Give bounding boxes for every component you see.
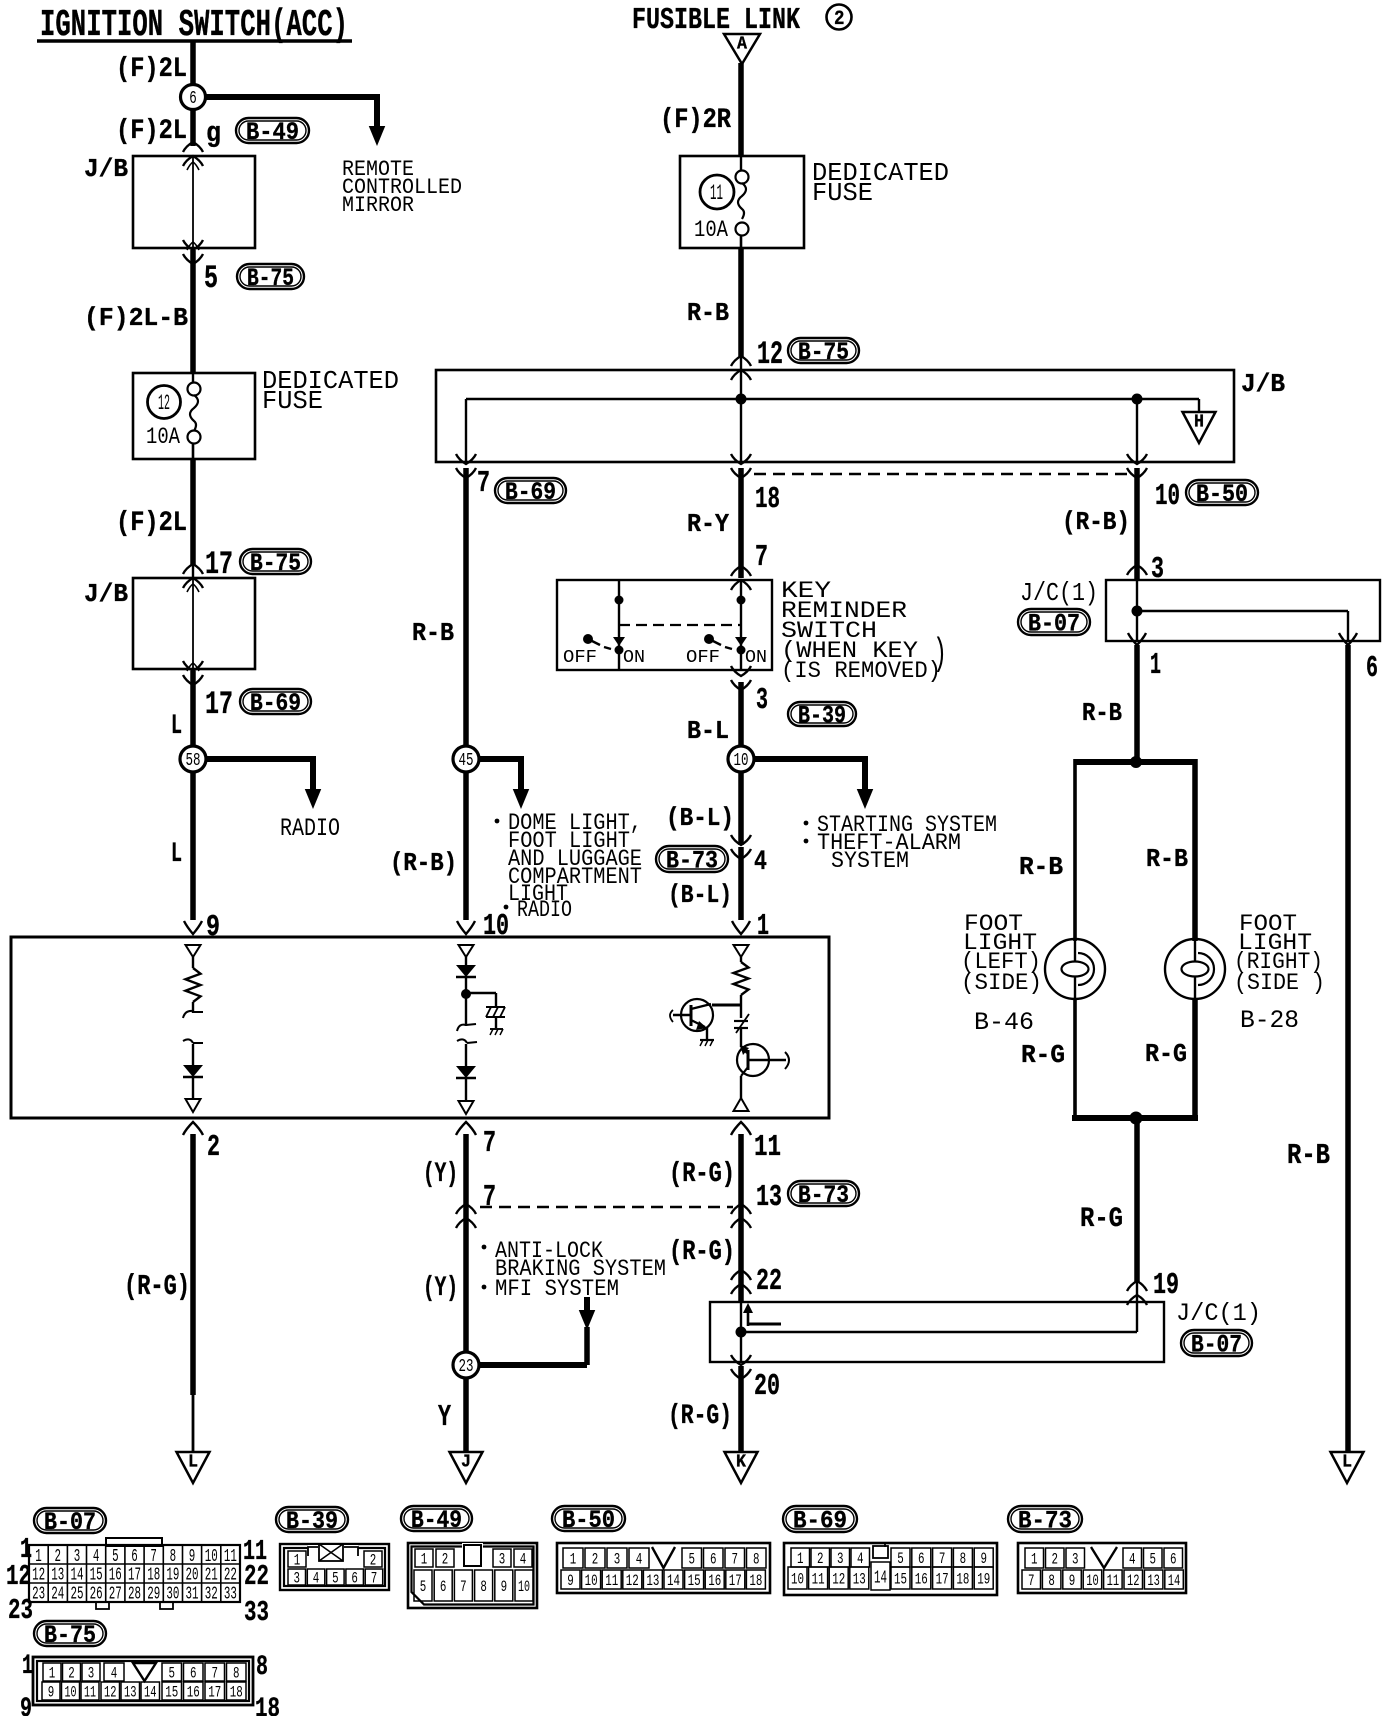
svg-text:11: 11 [605,1572,618,1590]
svg-text:(F)2R: (F)2R [660,105,731,136]
svg-text:B-75: B-75 [247,265,294,293]
svg-text:5: 5 [169,1665,176,1683]
svg-text:19: 19 [977,1571,990,1589]
svg-text:7: 7 [212,1665,219,1683]
svg-text:13: 13 [124,1684,137,1702]
svg-text:5: 5 [689,1551,696,1569]
svg-text:B-75: B-75 [250,550,301,578]
svg-text:10: 10 [518,1578,530,1596]
svg-text:1: 1 [570,1551,577,1569]
svg-text:9: 9 [501,1578,508,1596]
svg-text:OFF: OFF [686,646,720,668]
svg-text:R-B: R-B [687,298,729,328]
svg-text:8: 8 [256,1652,268,1683]
svg-text:9: 9 [1069,1572,1076,1590]
svg-text:45: 45 [459,749,474,771]
svg-text:B-49: B-49 [246,119,299,147]
svg-text:9: 9 [981,1550,988,1568]
svg-text:20: 20 [754,1370,780,1404]
svg-text:31: 31 [186,1585,199,1605]
svg-text:(F)2L: (F)2L [116,508,187,539]
svg-text:9: 9 [189,1547,196,1567]
svg-text:1: 1 [757,910,769,944]
svg-text:9: 9 [48,1684,55,1702]
svg-text:B-73: B-73 [798,1182,849,1210]
svg-text:3: 3 [1151,553,1164,587]
svg-text:6: 6 [189,87,197,109]
svg-text:FUSE: FUSE [262,386,323,416]
svg-text:23: 23 [8,1594,33,1627]
svg-text:18: 18 [749,1572,762,1590]
svg-text:13: 13 [646,1572,659,1590]
svg-text:23: 23 [459,1355,474,1377]
svg-text:1: 1 [1150,649,1161,683]
svg-text:(B-L): (B-L) [666,803,734,833]
svg-text:14: 14 [1168,1572,1181,1590]
svg-text:10A: 10A [694,217,728,243]
svg-text:R-G: R-G [1080,1204,1123,1235]
svg-text:9: 9 [567,1572,574,1590]
svg-text:(R-G): (R-G) [669,1159,735,1190]
svg-text:1: 1 [1031,1551,1038,1569]
svg-text:4: 4 [111,1665,118,1683]
svg-text:8: 8 [753,1551,760,1569]
svg-text:17: 17 [936,1571,949,1589]
svg-text:20: 20 [186,1566,199,1586]
svg-text:10A: 10A [146,424,180,450]
svg-text:17: 17 [205,686,233,723]
svg-text:32: 32 [205,1585,218,1605]
svg-text:K: K [736,1453,746,1473]
svg-text:12: 12 [626,1572,639,1590]
svg-text:10: 10 [1155,480,1180,514]
svg-text:29: 29 [147,1585,160,1605]
svg-text:7: 7 [477,467,490,501]
svg-text:12: 12 [6,1560,31,1593]
svg-text:4: 4 [313,1570,320,1588]
svg-text:ON: ON [623,646,645,668]
svg-text:2: 2 [207,1131,220,1165]
svg-text:19: 19 [166,1566,179,1586]
svg-text:4: 4 [754,847,767,878]
svg-text:8: 8 [170,1547,177,1567]
svg-text:B-50: B-50 [562,1507,615,1535]
svg-text:4: 4 [93,1547,100,1567]
svg-text:4: 4 [636,1551,643,1569]
svg-text:(SIDE): (SIDE) [961,970,1042,996]
svg-text:3: 3 [74,1547,81,1567]
svg-text:(Y): (Y) [423,1159,458,1190]
svg-text:13: 13 [853,1571,866,1589]
svg-text:5: 5 [1150,1551,1157,1569]
svg-text:17: 17 [208,1684,221,1702]
svg-text:B-75: B-75 [798,339,849,367]
svg-text:L: L [171,711,182,742]
svg-text:B-46: B-46 [974,1009,1034,1037]
svg-text:1: 1 [22,1651,33,1682]
svg-text:FUSIBLE LINK: FUSIBLE LINK [632,4,801,38]
svg-text:15: 15 [90,1566,103,1586]
svg-text:B-07: B-07 [1028,611,1080,639]
svg-text:J: J [461,1453,471,1473]
svg-text:5: 5 [332,1570,339,1588]
svg-text:B-07: B-07 [1191,1332,1242,1360]
svg-text:(B-L): (B-L) [668,880,732,910]
svg-text:18: 18 [147,1566,160,1586]
svg-text:4: 4 [1129,1551,1136,1569]
svg-text:J/B: J/B [84,579,128,609]
svg-text:B-28: B-28 [1240,1007,1299,1035]
svg-text:R-B: R-B [1146,844,1188,874]
svg-text:4: 4 [857,1550,864,1568]
svg-text:2: 2 [68,1665,75,1683]
svg-text:OFF: OFF [563,646,597,668]
svg-text:(R-G): (R-G) [124,1270,190,1303]
svg-text:FUSE: FUSE [812,178,873,208]
svg-text:7: 7 [150,1547,157,1567]
svg-text:1: 1 [421,1551,428,1569]
svg-text:2: 2 [1052,1551,1059,1569]
svg-text:12: 12 [158,391,170,416]
svg-text:5: 5 [420,1578,427,1596]
svg-text:6: 6 [351,1570,358,1588]
svg-text:1: 1 [49,1665,56,1683]
svg-text:3: 3 [88,1665,95,1683]
svg-text:2: 2 [592,1551,599,1569]
svg-text:10: 10 [791,1571,804,1589]
svg-text:5: 5 [204,260,218,297]
svg-text:7: 7 [371,1570,378,1588]
svg-text:RADIO: RADIO [517,897,572,923]
svg-text:5: 5 [897,1550,904,1568]
svg-text:R-B: R-B [1287,1139,1330,1172]
svg-text:16: 16 [109,1566,122,1586]
svg-text:L: L [188,1453,198,1473]
svg-text:16: 16 [915,1571,928,1589]
svg-text:17: 17 [128,1566,141,1586]
svg-text:22: 22 [756,1265,782,1299]
svg-text:12: 12 [757,336,783,373]
svg-text:MIRROR: MIRROR [342,193,414,218]
svg-text:11: 11 [812,1571,825,1589]
svg-text:RADIO: RADIO [280,815,340,843]
svg-text:R-B: R-B [1019,852,1063,882]
svg-text:B-69: B-69 [250,690,301,718]
svg-text:33: 33 [244,1596,269,1629]
svg-text:17: 17 [729,1572,742,1590]
svg-text:2: 2 [442,1551,449,1569]
svg-text:R-Y: R-Y [687,509,729,539]
svg-text:5: 5 [112,1547,119,1567]
svg-text:22: 22 [244,1560,269,1593]
svg-text:21: 21 [205,1566,218,1586]
svg-text:R-B: R-B [412,618,454,648]
svg-text:8: 8 [1048,1572,1055,1590]
svg-text:ON: ON [745,646,767,668]
svg-text:11: 11 [224,1547,237,1567]
svg-text:B-50: B-50 [1196,481,1248,509]
svg-text:24: 24 [51,1585,64,1605]
svg-text:7: 7 [460,1578,467,1596]
svg-text:10: 10 [585,1572,598,1590]
svg-text:MFI SYSTEM: MFI SYSTEM [495,1276,619,1302]
svg-text:B-75: B-75 [44,1622,96,1650]
svg-text:J/C(1): J/C(1) [1020,578,1098,608]
svg-text:12: 12 [832,1571,845,1589]
svg-text:7: 7 [1028,1572,1035,1590]
svg-text:14: 14 [144,1684,157,1702]
svg-text:A: A [737,35,747,55]
svg-text:7: 7 [732,1551,739,1569]
svg-text:15: 15 [165,1684,178,1702]
svg-text:SYSTEM: SYSTEM [831,848,909,874]
svg-text:B-49: B-49 [411,1507,462,1535]
svg-text:8: 8 [233,1665,240,1683]
svg-text:B-39: B-39 [286,1508,338,1536]
svg-text:R-G: R-G [1145,1039,1187,1069]
svg-text:(F)2L-B: (F)2L-B [84,303,188,333]
svg-text:6: 6 [918,1550,925,1568]
svg-text:J/B: J/B [1241,369,1285,399]
svg-text:25: 25 [71,1585,84,1605]
svg-text:B-73: B-73 [1018,1508,1072,1536]
svg-text:9: 9 [206,911,220,945]
svg-text:L: L [171,839,182,870]
svg-text:14: 14 [667,1572,680,1590]
svg-text:28: 28 [128,1585,141,1605]
svg-text:6: 6 [131,1547,138,1567]
svg-text:3: 3 [294,1570,301,1588]
svg-text:4: 4 [520,1551,527,1569]
svg-text:2: 2 [817,1550,824,1568]
svg-text:7: 7 [483,1127,496,1161]
svg-text:10: 10 [483,910,509,944]
svg-text:Y: Y [438,1401,451,1435]
svg-text:15: 15 [688,1572,701,1590]
svg-text:R-B: R-B [1082,698,1122,728]
svg-text:2: 2 [370,1552,377,1570]
svg-text:J/C(1): J/C(1) [1176,1300,1261,1328]
svg-text:10: 10 [734,749,749,771]
svg-text:R-G: R-G [1021,1040,1065,1070]
svg-text:B-69: B-69 [505,479,556,507]
svg-text:11: 11 [710,181,723,206]
svg-text:7: 7 [939,1550,946,1568]
svg-text:B-07: B-07 [44,1509,96,1537]
svg-text:3: 3 [837,1550,844,1568]
svg-text:1: 1 [35,1547,42,1567]
svg-text:8: 8 [480,1578,487,1596]
svg-text:(IS REMOVED): (IS REMOVED) [781,658,941,684]
svg-text:12: 12 [104,1684,117,1702]
svg-text:L: L [1342,1453,1352,1473]
svg-text:18: 18 [255,1694,280,1716]
svg-text:7: 7 [755,541,768,575]
svg-text:(R-G): (R-G) [669,1237,735,1268]
svg-text:(SIDE ): (SIDE ) [1234,970,1325,996]
svg-text:13: 13 [1147,1572,1160,1590]
svg-text:9: 9 [20,1694,32,1716]
svg-text:3: 3 [499,1551,506,1569]
svg-text:J/B: J/B [84,154,128,184]
svg-text:6: 6 [710,1551,717,1569]
svg-text:(R-B): (R-B) [1062,507,1130,537]
svg-text:B-L: B-L [687,716,729,746]
svg-text:8: 8 [960,1550,967,1568]
svg-text:3: 3 [756,684,768,718]
svg-text:B-69: B-69 [793,1508,847,1536]
svg-text:22: 22 [224,1566,237,1586]
svg-text:2: 2 [834,8,845,31]
svg-text:14: 14 [71,1566,84,1586]
svg-text:12: 12 [1127,1572,1140,1590]
svg-text:11: 11 [1107,1572,1120,1590]
svg-text:6: 6 [190,1665,197,1683]
svg-text:12: 12 [32,1566,45,1586]
svg-text:16: 16 [708,1572,721,1590]
svg-text:6: 6 [1366,652,1378,686]
svg-text:11: 11 [754,1131,781,1165]
svg-text:33: 33 [224,1585,237,1605]
svg-text:18: 18 [956,1571,969,1589]
svg-text:10: 10 [65,1684,77,1702]
svg-text:H: H [1194,413,1204,433]
svg-text:6: 6 [440,1578,447,1596]
svg-text:11: 11 [84,1684,96,1702]
svg-text:2: 2 [55,1547,62,1567]
svg-text:58: 58 [186,749,201,771]
svg-text:(R-B): (R-B) [390,848,457,878]
svg-text:10: 10 [205,1547,218,1567]
svg-text:g: g [206,117,221,150]
svg-text:15: 15 [894,1571,907,1589]
svg-text:16: 16 [187,1684,200,1702]
svg-text:27: 27 [109,1585,122,1605]
svg-text:(F)2L: (F)2L [116,116,187,147]
svg-text:13: 13 [51,1566,64,1586]
svg-text:(F)2L: (F)2L [116,54,187,85]
svg-text:1: 1 [294,1552,301,1570]
svg-text:(R-G): (R-G) [668,1401,732,1432]
svg-text:(Y): (Y) [423,1273,458,1304]
svg-text:14: 14 [874,1567,887,1589]
svg-text:B-73: B-73 [666,848,718,876]
svg-text:1: 1 [797,1550,804,1568]
svg-text:7: 7 [483,1181,496,1215]
svg-text:18: 18 [230,1684,243,1702]
svg-text:19: 19 [1153,1269,1179,1303]
svg-text:23: 23 [32,1585,45,1605]
svg-text:3: 3 [614,1551,621,1569]
svg-text:18: 18 [755,483,780,517]
svg-text:B-39: B-39 [798,703,846,731]
svg-text:6: 6 [1170,1551,1177,1569]
svg-text:13: 13 [756,1181,782,1215]
svg-text:3: 3 [1072,1551,1079,1569]
svg-text:10: 10 [1086,1572,1099,1590]
